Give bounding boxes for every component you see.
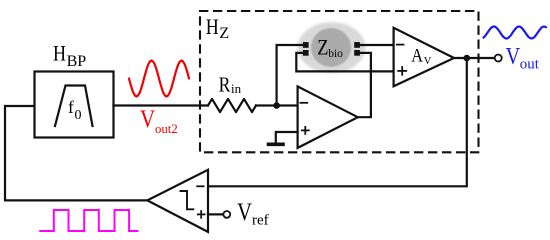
wire resistor to opamp — [256, 104, 297, 106]
node junction after R_in — [273, 102, 280, 109]
svg-text:V: V — [140, 104, 155, 132]
svg-text:bio: bio — [328, 48, 343, 60]
electrode right bottom — [354, 50, 360, 56]
svg-text:H: H — [206, 15, 219, 39]
svg-text:V: V — [424, 56, 432, 67]
op-amp U1 (current driver) — [298, 86, 358, 147]
electrode left top — [303, 42, 309, 48]
ground — [269, 143, 284, 147]
svg-text:BP: BP — [67, 53, 87, 70]
Zbio outer ellipse — [298, 22, 366, 73]
wire output down to comparator minus — [208, 58, 467, 186]
wire opamp U1 output up to Zbio right bottom — [358, 53, 371, 117]
wire feedback loop left — [5, 106, 147, 200]
comparator U2 — [147, 170, 208, 232]
U1 minus sign — [300, 102, 307, 104]
svg-text:in: in — [231, 81, 242, 96]
svg-text:Z: Z — [219, 25, 229, 42]
electrode right top — [354, 42, 360, 48]
U2 plus sign — [198, 213, 205, 215]
svg-text:A: A — [411, 44, 423, 65]
svg-text:out: out — [520, 57, 540, 73]
svg-text:f: f — [68, 97, 74, 117]
resistor R_in — [208, 99, 256, 112]
U1 plus sign — [302, 129, 309, 131]
wire U1 plus input — [276, 132, 298, 143]
svg-text:ref: ref — [252, 213, 269, 229]
electrode left bottom — [303, 50, 309, 56]
blue sine wave — [484, 27, 547, 39]
wire junction up to Zbio left top — [277, 45, 303, 106]
terminal V_ref — [223, 211, 230, 218]
A_V plus sign — [398, 70, 406, 72]
svg-text:out2: out2 — [155, 122, 178, 136]
magenta square wave — [40, 210, 137, 231]
svg-text:R: R — [219, 73, 232, 97]
wire Zbio right top to A_V minus input — [360, 44, 394, 46]
Zbio inner circle — [311, 28, 351, 67]
dashed box H_Z — [200, 11, 479, 152]
wire A_V output — [454, 57, 495, 59]
node output junction — [464, 55, 471, 62]
svg-text:V: V — [237, 198, 252, 225]
terminal V_out — [495, 55, 502, 62]
red sine wave — [129, 61, 189, 97]
hysteresis symbol — [181, 191, 194, 209]
svg-text:0: 0 — [75, 108, 82, 123]
svg-text:H: H — [53, 42, 66, 66]
U2 minus sign — [197, 185, 203, 187]
wire Zbio left bottom to A_V plus input — [296, 53, 393, 72]
svg-text:V: V — [506, 42, 521, 69]
wire U2 plus input — [208, 213, 223, 215]
op-amp A_V — [394, 28, 454, 87]
A_V minus sign — [397, 44, 404, 46]
svg-text:Z: Z — [317, 36, 328, 60]
bandpass symbol — [55, 86, 93, 127]
wire H_BP output — [114, 104, 209, 106]
block H_BP — [35, 72, 114, 138]
